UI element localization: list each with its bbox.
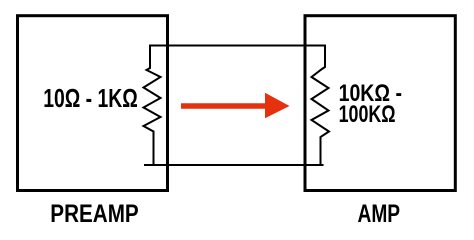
svg-text:10Ω - 1KΩ: 10Ω - 1KΩ: [43, 83, 138, 113]
svg-text:PREAMP: PREAMP: [50, 200, 138, 228]
wire bottom (return): [144, 164, 324, 166]
signal flow arrow: [181, 93, 290, 119]
wire top (preamp output to amp input): [150, 45, 325, 47]
resistor R1 (preamp output impedance): [144, 45, 161, 166]
AMP box: [305, 16, 455, 191]
PREAMP box: [18, 16, 168, 191]
svg-text:100KΩ: 100KΩ: [339, 101, 396, 128]
svg-text:AMP: AMP: [358, 200, 401, 228]
resistor R2 (amp input impedance): [312, 45, 330, 166]
